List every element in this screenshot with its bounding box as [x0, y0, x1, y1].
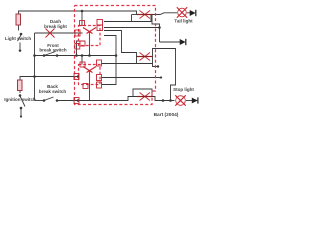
front brake switch	[43, 52, 59, 57]
socket bracket above stop bulb	[133, 89, 152, 97]
junction dot front brake bus	[33, 54, 36, 57]
wire tail lamp to connector	[187, 12, 191, 14]
wire dash light row	[35, 32, 83, 34]
connector pin middle splice right	[97, 60, 102, 66]
connector pin upper box left	[75, 30, 80, 36]
wire middle bulb exit to right descender	[149, 49, 176, 101]
connector pin back brake row	[74, 98, 79, 104]
wire fuse1 to light switch	[18, 25, 20, 31]
wire staircase from tail row down	[152, 15, 160, 43]
fuse F2	[18, 80, 23, 91]
wire vertical link V2 to middle bulb feed	[104, 31, 140, 57]
connector pin upper box top	[80, 21, 85, 26]
connector pin upper box bottom	[80, 41, 85, 46]
junction dot V1 front brake	[115, 54, 118, 57]
socket bracket under middle bulb	[137, 57, 153, 64]
wire tail bulb to tail lamp	[149, 13, 177, 15]
connector box splice 1 (dashed)	[79, 26, 101, 46]
svg-text:Tail light: Tail light	[174, 19, 193, 24]
dash brake light bulb	[46, 29, 55, 38]
wire drop from top feed into connector box	[81, 11, 83, 25]
splice Y2	[83, 67, 96, 81]
wire bracket stub to connector edge	[153, 64, 159, 67]
connector pin upper splice right	[97, 20, 103, 26]
svg-text:Stop light: Stop light	[173, 87, 194, 92]
svg-text:Ignition switch: Ignition switch	[4, 97, 36, 102]
wire lower splice left stub	[35, 76, 79, 78]
wire lower splice to connector edge stub	[101, 77, 161, 79]
wire socket return to connector box	[104, 21, 132, 23]
junction dot stop row	[162, 99, 165, 102]
wire drop to lower splice box	[81, 56, 83, 65]
wire tail return bus	[104, 27, 160, 29]
wire fuse2 to ignition switch	[19, 91, 21, 94]
wire back brake row	[35, 100, 45, 102]
socket bracket under tail bulb	[132, 15, 152, 22]
junction dot pin wire front brake row	[75, 54, 78, 57]
junction dot top feed	[81, 10, 84, 13]
back brake switch	[43, 97, 59, 102]
junction dot drop to lower box	[81, 54, 84, 57]
svg-text:Light switch: Light switch	[5, 36, 31, 41]
wire stem of splice Y2 down to back brake row	[89, 81, 91, 101]
junction dot descender stop row	[169, 99, 172, 102]
stub end dot lower right edge	[160, 76, 162, 78]
wire bracket return to box	[101, 63, 137, 65]
wire front brake row	[35, 55, 117, 57]
connector pin lower box left	[74, 74, 79, 80]
stop bulb in connector box	[137, 93, 153, 101]
ignition switch	[19, 94, 25, 117]
wire stop light to connector	[186, 100, 193, 102]
junction dot lower splice stub	[77, 75, 80, 78]
connector arrow middle	[180, 39, 186, 45]
junction dot back brake row	[77, 99, 80, 102]
wire tail bulb feed	[132, 14, 141, 16]
fuse F1	[16, 14, 21, 25]
connector box outer (dashed)	[75, 6, 156, 105]
wire stop bulb exit	[149, 97, 175, 101]
connector pin lower box bottom	[83, 84, 88, 89]
svg-text:break switch: break switch	[39, 89, 67, 94]
wire left bus vertical	[34, 33, 36, 101]
wire to middle connector arrow	[160, 41, 181, 43]
wire vertical link V1	[101, 36, 116, 85]
light switch	[18, 33, 23, 52]
wire back brake switch to stop bulb	[57, 97, 140, 101]
junction dot fuse2 bus	[33, 75, 36, 78]
wire fuse2 feed	[20, 77, 35, 81]
connector box splice 2 (dashed)	[79, 65, 101, 85]
splice Y1	[83, 28, 96, 45]
svg-text:break switch: break switch	[39, 48, 67, 53]
connector pin front brake edge	[75, 44, 80, 50]
stub end dot right edge	[157, 65, 159, 67]
connector pin lower splice right	[97, 82, 102, 88]
middle bulb in connector box	[137, 53, 153, 61]
wire stem of splice Y1	[89, 45, 91, 56]
junction dot tail return	[158, 26, 161, 29]
connector pin lower splice right mid	[97, 75, 102, 81]
connector pin lower box top	[80, 62, 85, 67]
wire ignition battery stub	[20, 109, 22, 117]
stop light lamp	[175, 95, 185, 105]
wire top feed from fuse F1	[19, 11, 137, 15]
connector pin upper splice right lower	[97, 25, 103, 31]
wire upper box bottom pin to front brake row	[77, 41, 85, 56]
connector arrow stop light	[192, 97, 198, 103]
svg-text:break light: break light	[44, 24, 67, 29]
junction dot Y1 stem	[88, 54, 91, 57]
svg-text:Bart (2004): Bart (2004)	[154, 112, 179, 118]
tail bulb in connector box	[137, 11, 153, 19]
tail light lamp	[177, 7, 187, 18]
connector arrow tail light	[190, 10, 196, 16]
